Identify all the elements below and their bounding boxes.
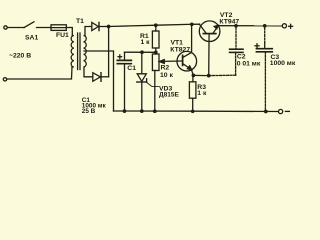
- output terminal plus: [282, 24, 286, 28]
- capacitor C3 (dashed leads): [264, 28, 266, 43]
- wire center tap: [84, 51, 114, 111]
- wire rail into VT2: [192, 23, 200, 25]
- node R2 bottom: [153, 109, 157, 113]
- transistor VT2: [199, 21, 220, 42]
- node on top rail: [190, 22, 194, 26]
- node VT1 emitter: [192, 74, 196, 78]
- node rectifier output: [107, 25, 111, 29]
- svg-text:КТ947: КТ947: [219, 18, 239, 25]
- node C3 bottom: [264, 110, 268, 114]
- input terminal top: [4, 26, 7, 29]
- svg-text:T1: T1: [76, 18, 84, 25]
- svg-text:R2: R2: [161, 65, 170, 72]
- svg-text:SA1: SA1: [25, 34, 38, 41]
- node R1/R2 junction: [154, 50, 158, 54]
- wire primary bottom lead: [7, 67, 72, 79]
- wire secondary bottom lead: [84, 67, 93, 77]
- resistor R2 (variable): [152, 54, 159, 71]
- wire VT1 collector riser: [191, 24, 193, 52]
- svg-text:FU1: FU1: [56, 32, 69, 39]
- wire output rail: [218, 25, 282, 27]
- output terminal minus: [279, 109, 283, 113]
- svg-text:Д815Е: Д815Е: [159, 91, 179, 98]
- svg-text:1000 мк: 1000 мк: [270, 60, 296, 67]
- node C1 bottom: [123, 109, 127, 113]
- transformer T1 primary winding: [71, 36, 74, 68]
- capacitor C1: [124, 52, 126, 59]
- zener VD3: [141, 52, 143, 74]
- svg-text:1 к: 1 к: [197, 90, 207, 97]
- svg-text:0 01 мк: 0 01 мк: [237, 60, 261, 67]
- capacitor C2 (dashed leads): [235, 28, 237, 50]
- wire top rail: [109, 24, 192, 26]
- wire VT1 emitter to VT2 base: [193, 74, 208, 76]
- node C3 top: [263, 24, 267, 28]
- node VD3 bottom: [140, 109, 144, 113]
- switch SA1: [24, 22, 34, 28]
- svg-text:25 В: 25 В: [82, 108, 96, 115]
- svg-text:КТ827: КТ827: [170, 46, 190, 53]
- transistor VT1: [177, 51, 197, 71]
- wire VD2 riser: [108, 27, 110, 77]
- resistor R1: [154, 23, 158, 27]
- diode VD1: [92, 22, 99, 30]
- transformer core: [77, 33, 79, 70]
- wire: [66, 28, 72, 36]
- resistor R3: [192, 75, 194, 81]
- svg-text:~220 В: ~220 В: [9, 52, 31, 59]
- wire R2 wiper to VT1 base: [162, 60, 183, 62]
- input terminal bottom: [3, 78, 6, 81]
- wire: [99, 26, 109, 28]
- node VT2 base bottom: [207, 74, 211, 78]
- diode VD2: [93, 73, 101, 82]
- svg-text:С1: С1: [127, 65, 136, 72]
- transformer T1 secondary winding: [84, 36, 87, 68]
- svg-text:10 к: 10 к: [160, 72, 173, 79]
- fuse FU1: [51, 25, 66, 31]
- wire bottom rail: [114, 110, 279, 113]
- node R3 bottom: [191, 109, 195, 113]
- wire zener node: [125, 51, 156, 53]
- wire: [37, 27, 52, 29]
- wire secondary top lead: [85, 27, 92, 36]
- wire: [7, 27, 24, 29]
- wire: [101, 76, 109, 78]
- node zener tap: [140, 50, 144, 54]
- node C2 top: [234, 24, 238, 28]
- svg-text:1 к: 1 к: [141, 39, 151, 46]
